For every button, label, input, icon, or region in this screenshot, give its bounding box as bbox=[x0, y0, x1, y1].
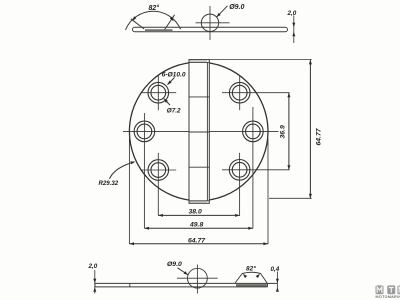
svg-text:82°: 82° bbox=[149, 4, 160, 12]
svg-text:38.0: 38.0 bbox=[189, 209, 202, 216]
svg-text:R29.32: R29.32 bbox=[99, 180, 119, 187]
svg-text:MOTOMARINE: MOTOMARINE bbox=[376, 295, 400, 299]
svg-text:64.77: 64.77 bbox=[188, 238, 206, 245]
svg-text:6-Ø10.0: 6-Ø10.0 bbox=[162, 72, 186, 79]
svg-text:49.8: 49.8 bbox=[189, 221, 203, 228]
svg-text:0,4: 0,4 bbox=[271, 266, 280, 273]
svg-text:36.9: 36.9 bbox=[280, 125, 287, 138]
svg-text:2,0: 2,0 bbox=[287, 10, 297, 17]
svg-text:Ø9.0: Ø9.0 bbox=[167, 261, 182, 268]
svg-text:Ø7.2: Ø7.2 bbox=[167, 107, 181, 114]
svg-text:64.77: 64.77 bbox=[316, 127, 323, 145]
svg-text:2,0: 2,0 bbox=[88, 263, 98, 270]
svg-text:Ø9.0: Ø9.0 bbox=[229, 4, 244, 11]
svg-text:82°: 82° bbox=[246, 265, 256, 273]
